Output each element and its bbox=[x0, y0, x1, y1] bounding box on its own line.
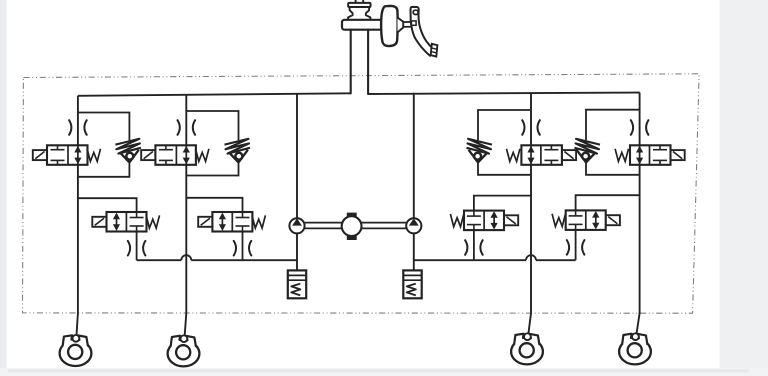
open-flow double arrow in inlet valve (NO) channel 3 bbox=[530, 145, 532, 165]
solenoid coil of inlet valve (NO) channel 3 bbox=[562, 150, 576, 160]
wire: left return line to pump P1 bbox=[137, 259, 297, 261]
front-left wheel brake (wheel brake disc) bbox=[60, 340, 92, 366]
valve body of outlet valve (NC) channel 1 bbox=[107, 212, 147, 232]
wire: check valve bypass loop channel 2 bbox=[186, 111, 238, 176]
scan margin bottom bbox=[0, 368, 768, 376]
return spring W of outlet valve (NC) channel 1 bbox=[146, 215, 159, 228]
solenoid coil of inlet valve (NO) channel 2 bbox=[141, 150, 155, 160]
wire: channel 2 main line bbox=[184, 95, 186, 342]
caliper of rear-right wheel brake bbox=[622, 334, 647, 345]
return spring W of outlet valve (NC) channel 2 bbox=[252, 215, 265, 228]
fluid reservoir bbox=[348, 7, 370, 20]
orifice (fixed restrictor) channel 3 inlet bbox=[522, 120, 524, 135]
valve body of inlet valve (NO) channel 1 bbox=[47, 145, 88, 165]
blocked-port T symbols in outlet valve (NC) channel 1 bbox=[136, 212, 138, 218]
wire: outlet valve channel 4 to return line bbox=[575, 230, 577, 260]
accumulator A1 (spring accumulator / reservoir) bbox=[288, 270, 306, 298]
pedal pivot hole bbox=[413, 10, 418, 14]
orifice (fixed restrictor) channel 2 outlet bbox=[234, 241, 236, 256]
return spring W of inlet valve (NO) channel 1 bbox=[87, 149, 100, 162]
wire: pump P2 suction line bbox=[413, 233, 415, 270]
wire: channel 3 main line bbox=[528, 93, 531, 340]
brake pedal arm bbox=[410, 7, 433, 56]
blocked-port T symbols in inlet valve (NO) channel 1 bbox=[57, 145, 59, 149]
wire: check valve bypass loop channel 1 bbox=[78, 113, 129, 177]
check valve CV2 (spring-loaded check valve) bbox=[225, 139, 251, 154]
open-flow double arrow in outlet valve (NC) channel 3 bbox=[493, 213, 495, 229]
wire: pump P1 pressure line bbox=[296, 94, 298, 218]
open-flow double arrow in inlet valve (NO) channel 1 bbox=[77, 145, 79, 165]
return spring W of inlet valve (NO) channel 3 bbox=[507, 149, 520, 162]
hose fitting of front-left wheel brake bbox=[73, 335, 80, 342]
return spring W of inlet valve (NO) channel 2 bbox=[196, 149, 209, 162]
orifice (fixed restrictor) channel 4 inlet bbox=[631, 120, 633, 135]
solenoid coil of outlet valve (NC) channel 2 bbox=[198, 217, 212, 227]
wire: outlet valve channel 3 to return line bbox=[473, 230, 475, 260]
front-right wheel brake (wheel brake disc) bbox=[168, 341, 200, 367]
wire: branch to outlet valve channel 2 bbox=[186, 198, 242, 212]
open-flow double arrow in inlet valve (NO) channel 4 bbox=[639, 145, 641, 165]
rear-left wheel brake (wheel brake disc) bbox=[511, 339, 543, 365]
wire hop over channel 3 line bbox=[526, 255, 536, 260]
valve body of outlet valve (NC) channel 2 bbox=[212, 212, 252, 232]
hose fitting of rear-right wheel brake bbox=[632, 333, 639, 340]
wire: check valve bypass loop channel 3 bbox=[478, 110, 531, 175]
booster push-rod cone bbox=[398, 18, 404, 33]
reservoir cap bbox=[348, 3, 370, 7]
push rod bbox=[403, 21, 411, 23]
vacuum booster shell bbox=[381, 6, 397, 46]
return spring W of inlet valve (NO) channel 4 bbox=[615, 149, 628, 162]
open-flow double arrow in outlet valve (NC) channel 2 bbox=[221, 214, 223, 230]
wire: branch to outlet valve channel 4 bbox=[576, 195, 640, 210]
blocked-port T symbols in inlet valve (NO) channel 2 bbox=[165, 145, 167, 149]
solenoid coil of outlet valve (NC) channel 1 bbox=[92, 217, 106, 227]
reservoir cap neck bbox=[356, 0, 364, 3]
wire: outlet valve channel 2 to return line bbox=[242, 232, 244, 261]
wire hop over channel 2 line bbox=[181, 255, 191, 260]
wire: channel 1 main line bbox=[76, 96, 78, 342]
wire: pump P2 pressure line bbox=[413, 94, 415, 219]
orifice (fixed restrictor) channel 1 outlet bbox=[128, 241, 130, 256]
wire: check valve bypass loop channel 4 bbox=[586, 110, 640, 175]
valve body of inlet valve (NO) channel 4 bbox=[630, 145, 671, 165]
wire: master cylinder port 1 down-pipe bbox=[350, 30, 352, 94]
check valve CV3 (spring-loaded check valve) bbox=[467, 139, 493, 154]
pump P1 (hydraulic pump) bbox=[289, 218, 304, 233]
wire: right supply bus bbox=[368, 93, 639, 95]
caliper of front-right wheel brake bbox=[171, 336, 196, 347]
caliper of rear-left wheel brake bbox=[514, 334, 539, 345]
return spring W of outlet valve (NC) channel 3 bbox=[450, 214, 463, 227]
blocked-port T symbols in inlet valve (NO) channel 3 bbox=[550, 145, 552, 149]
blocked-port T symbols in outlet valve (NC) channel 3 bbox=[473, 211, 475, 217]
solenoid coil of inlet valve (NO) channel 1 bbox=[33, 150, 47, 160]
wire: outlet valve channel 1 to return line bbox=[136, 232, 138, 261]
orifice (fixed restrictor) channel 2 inlet bbox=[178, 120, 180, 135]
valve body of inlet valve (NO) channel 2 bbox=[155, 145, 196, 165]
orifice (fixed restrictor) channel 3 outlet bbox=[465, 240, 467, 255]
wire: pump P1 suction line bbox=[296, 233, 298, 270]
hub of rear-left wheel brake bbox=[520, 343, 534, 357]
pump P2 (hydraulic pump) bbox=[406, 218, 421, 233]
solenoid coil of outlet valve (NC) channel 3 bbox=[504, 215, 518, 225]
valve body of outlet valve (NC) channel 4 bbox=[566, 210, 606, 230]
caliper of front-left wheel brake bbox=[63, 335, 88, 346]
check valve CV1 (spring-loaded check valve) bbox=[115, 139, 140, 154]
HCU dashed enclosure frame bbox=[23, 74, 700, 313]
solenoid coil of outlet valve (NC) channel 4 bbox=[606, 215, 620, 225]
wire: left supply bus bbox=[78, 93, 351, 96]
hub of front-right wheel brake bbox=[176, 345, 190, 359]
blocked-port T symbols in outlet valve (NC) channel 2 bbox=[242, 212, 244, 218]
rear-right wheel brake (wheel brake disc) bbox=[619, 339, 651, 365]
return spring W of outlet valve (NC) channel 4 bbox=[552, 214, 565, 227]
open-flow double arrow in inlet valve (NO) channel 2 bbox=[185, 145, 187, 165]
wire: branch to outlet valve channel 1 bbox=[78, 198, 137, 212]
hub of front-left wheel brake bbox=[68, 345, 82, 359]
valve body of outlet valve (NC) channel 3 bbox=[464, 211, 504, 231]
open-flow double arrow in outlet valve (NC) channel 4 bbox=[595, 212, 597, 228]
wire: right return line to pump P2 bbox=[414, 259, 576, 261]
master cylinder barrel bbox=[342, 20, 383, 30]
scan margin left bbox=[0, 0, 7, 376]
open-flow double arrow in outlet valve (NC) channel 1 bbox=[116, 214, 118, 230]
push-rod slot in pedal arm bbox=[411, 21, 416, 25]
wire: master cylinder port 2 down-pipe bbox=[367, 30, 369, 94]
pedal pad bbox=[431, 44, 438, 57]
wire: channel 4 main line bbox=[636, 93, 640, 341]
blocked-port T symbols in inlet valve (NO) channel 4 bbox=[659, 145, 661, 149]
hub of rear-right wheel brake bbox=[628, 343, 642, 357]
orifice (fixed restrictor) channel 1 inlet bbox=[69, 120, 71, 135]
solenoid coil of inlet valve (NO) channel 4 bbox=[671, 150, 685, 160]
drive shaft right (double line) bbox=[362, 222, 407, 224]
orifice (fixed restrictor) channel 4 outlet bbox=[567, 240, 569, 255]
drive shaft left (double line) bbox=[305, 222, 342, 224]
motor M (pump drive motor) bbox=[342, 216, 362, 236]
blocked-port T symbols in outlet valve (NC) channel 4 bbox=[575, 210, 577, 216]
check valve CV4 (spring-loaded check valve) bbox=[575, 139, 601, 154]
valve body of inlet valve (NO) channel 3 bbox=[521, 145, 562, 165]
wire: branch to outlet valve channel 3 bbox=[474, 196, 531, 211]
scan margin right bbox=[720, 0, 768, 376]
accumulator A2 (spring accumulator / reservoir) bbox=[403, 270, 421, 298]
hose fitting of front-right wheel brake bbox=[181, 335, 188, 342]
hose fitting of rear-left wheel brake bbox=[524, 333, 531, 340]
